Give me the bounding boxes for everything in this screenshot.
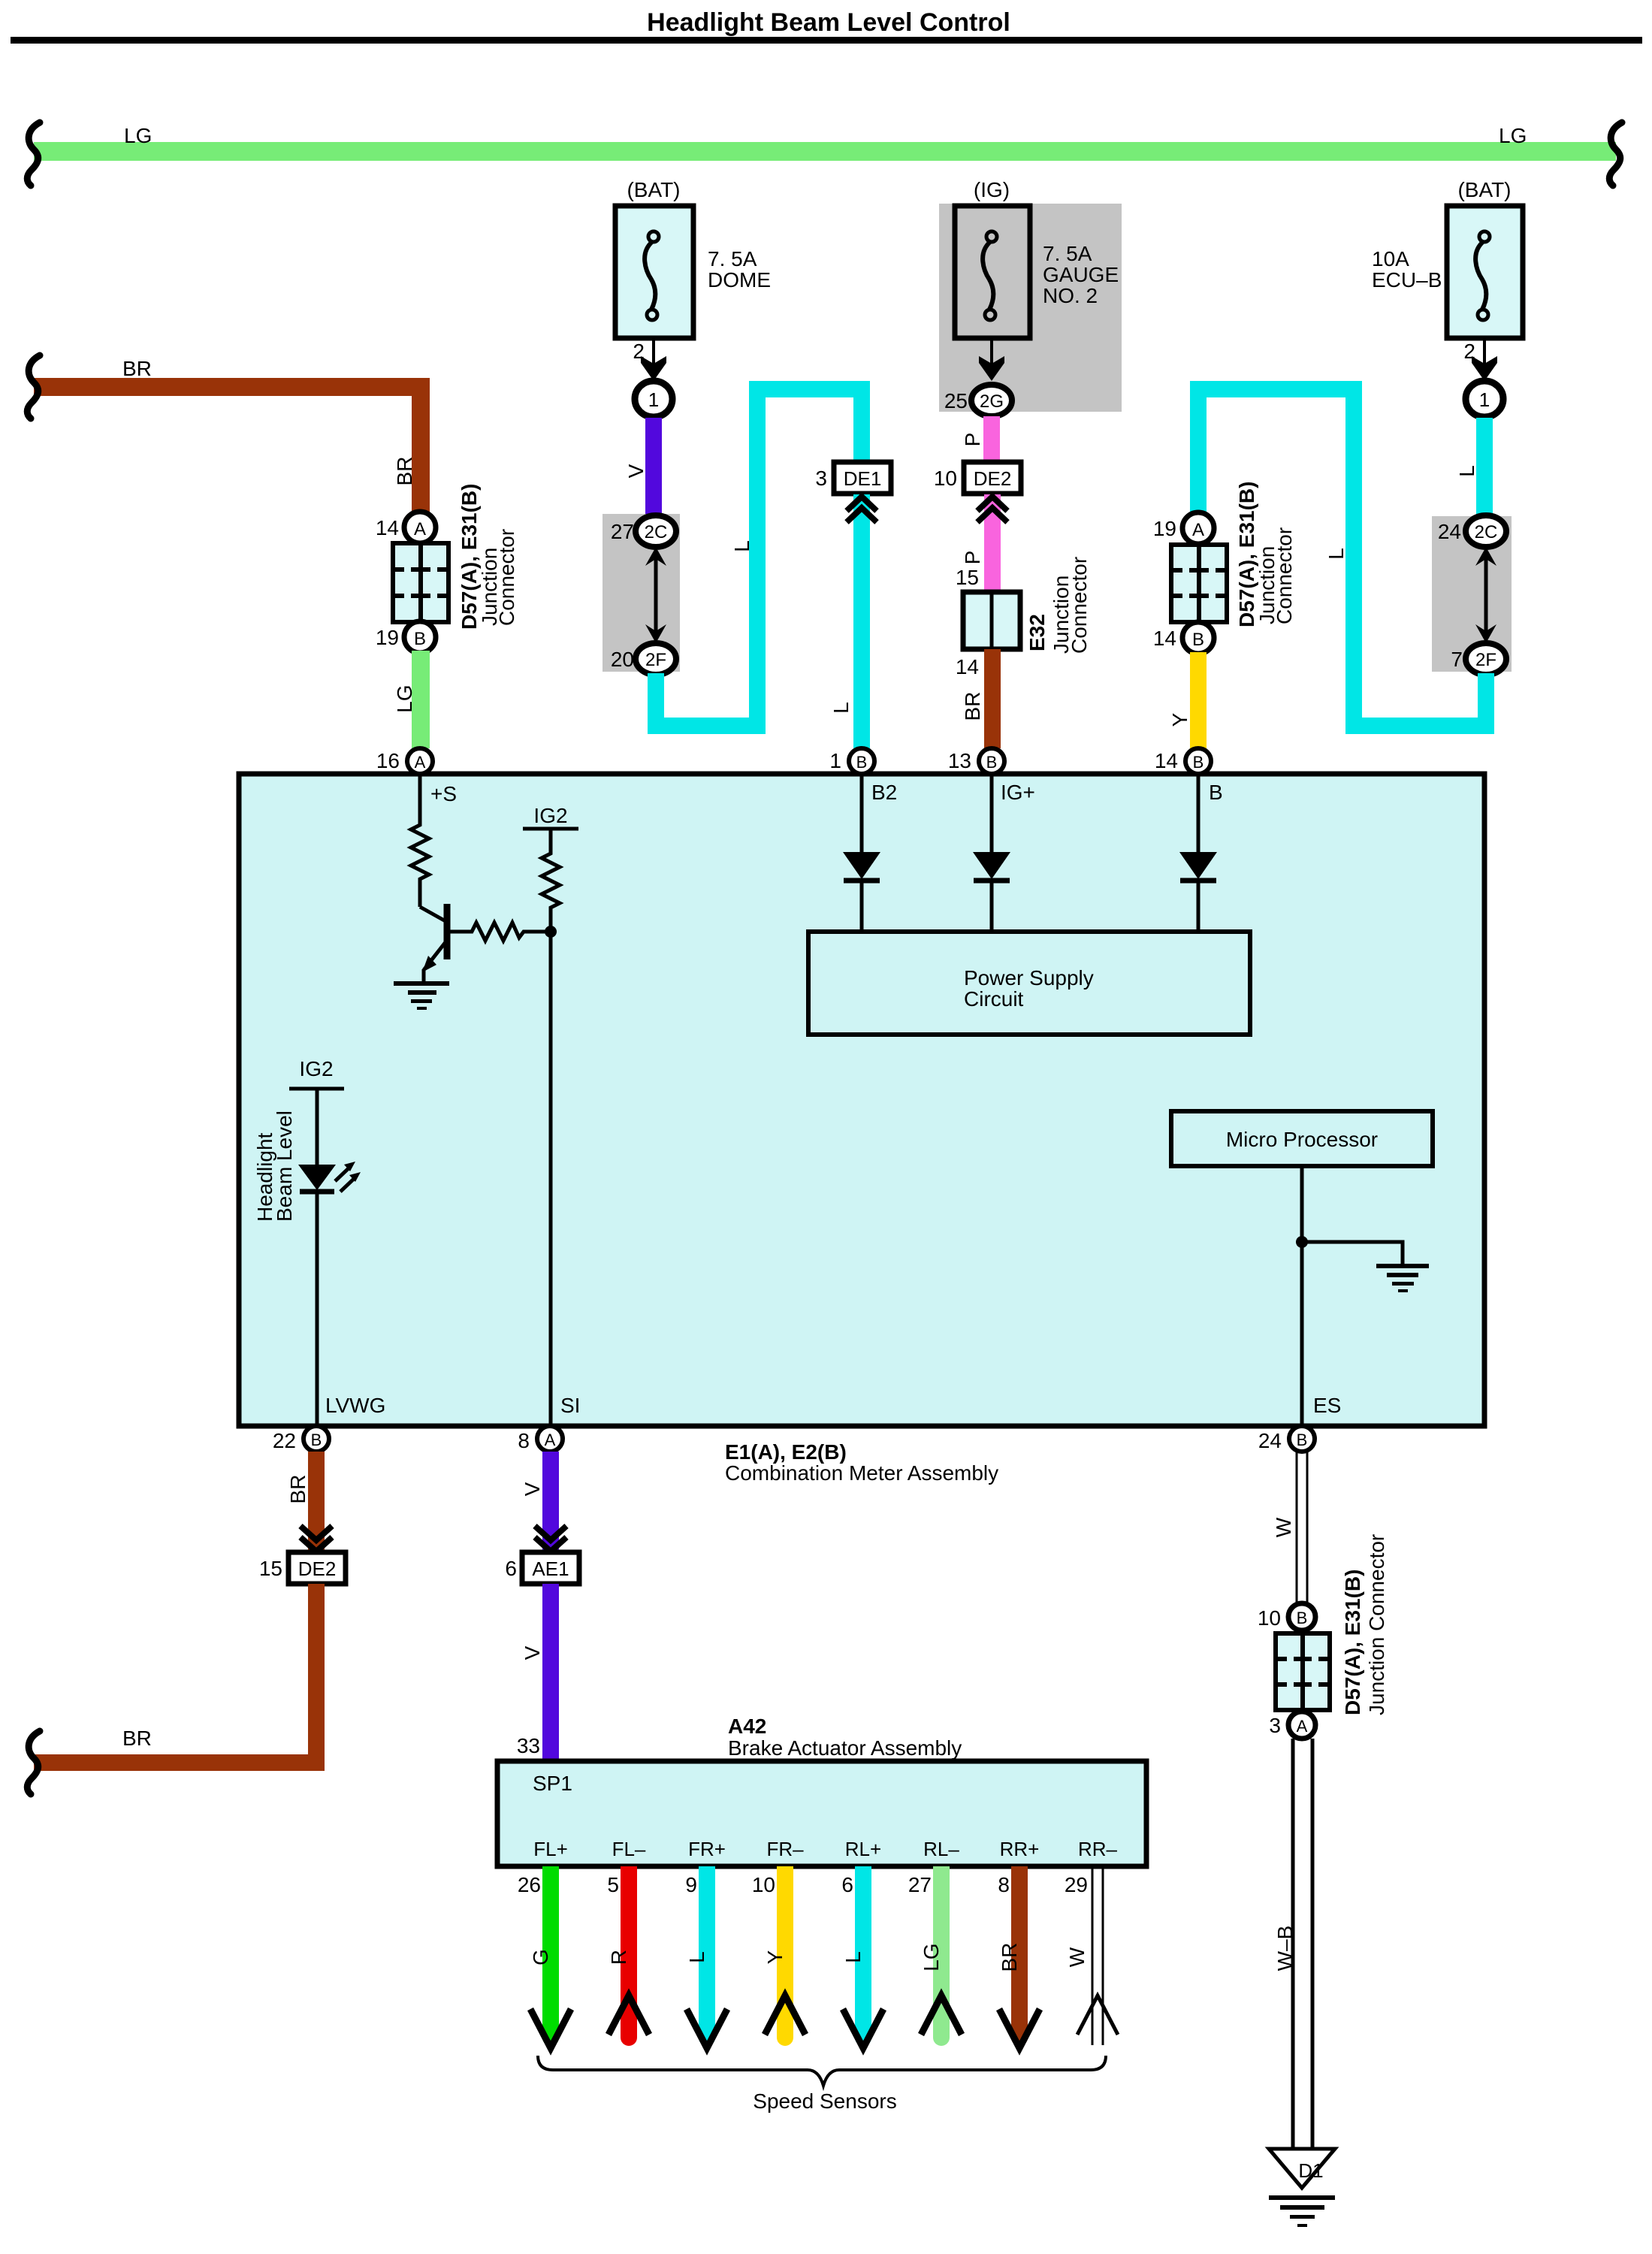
svg-text:24: 24	[1438, 520, 1461, 543]
junction connector D57(A),E31(B) right: grid box	[1171, 545, 1227, 622]
svg-text:LG: LG	[1499, 124, 1527, 147]
arrow up (RL-)	[921, 1996, 962, 2035]
svg-text:3: 3	[815, 467, 827, 490]
gray block behind GAUGE fuse	[939, 204, 1122, 412]
wire L (FR+)	[699, 1866, 715, 2038]
svg-text:Circuit: Circuit	[964, 987, 1024, 1011]
svg-text:13: 13	[948, 749, 971, 772]
svg-text:IG2: IG2	[533, 804, 567, 827]
wire L (fuse to 2C right)	[1476, 418, 1493, 515]
title rule	[11, 37, 1642, 44]
connector ellipse 1 (DOME)	[635, 381, 672, 417]
arrow down (RR+)	[999, 2009, 1040, 2048]
svg-text:B: B	[414, 629, 426, 649]
svg-text:10: 10	[752, 1873, 775, 1896]
wire fuse to 2G	[990, 338, 993, 365]
svg-text:GAUGE: GAUGE	[1043, 263, 1119, 286]
svg-text:SI: SI	[560, 1394, 580, 1417]
svg-text:LG: LG	[124, 124, 152, 147]
svg-text:D1: D1	[1298, 2159, 1323, 2182]
svg-text:B: B	[1297, 1431, 1308, 1449]
transistor Q1 base bar	[444, 904, 451, 959]
wire micro processor to ES	[1300, 1166, 1304, 1426]
svg-text:B: B	[986, 753, 998, 772]
transistor Q1 emitter lead with arrow	[424, 942, 445, 970]
wire pin 2 (ECU-B)	[1483, 338, 1486, 365]
svg-text:Connector: Connector	[1273, 527, 1296, 624]
svg-text:A: A	[545, 1431, 556, 1449]
svg-text:6: 6	[505, 1557, 517, 1580]
svg-text:V: V	[521, 1482, 544, 1496]
node junction (base/IG2)	[545, 926, 557, 938]
diode D (B2)	[860, 774, 864, 854]
wire P (2G to DE2)	[983, 416, 1000, 463]
wire W (RR-) double line	[1092, 1866, 1094, 2045]
ground point D1 triangle	[1269, 2149, 1335, 2188]
svg-text:Brake Actuator Assembly: Brake Actuator Assembly	[728, 1736, 962, 1760]
svg-text:LG: LG	[920, 1943, 943, 1971]
arrowhead down (ECU-B pin 2)	[1472, 356, 1497, 381]
combination meter assembly box	[239, 774, 1484, 1426]
svg-text:BR: BR	[998, 1943, 1021, 1972]
arrow up (RR-)	[1077, 1996, 1118, 2035]
svg-text:IG+: IG+	[1001, 781, 1035, 804]
junction connector D57(A),E31(B) bottom: grid box	[1276, 1633, 1330, 1710]
svg-text:14: 14	[1155, 749, 1178, 772]
svg-text:3: 3	[1269, 1714, 1281, 1737]
wire LED to LVWG pin	[316, 1192, 319, 1426]
svg-text:20: 20	[611, 648, 634, 671]
double-head arrow between 2C and 2F (right)	[1484, 556, 1488, 635]
svg-text:19: 19	[376, 626, 399, 649]
wire L (RL+)	[855, 1866, 871, 2038]
svg-text:33: 33	[517, 1734, 540, 1757]
svg-text:22: 22	[273, 1429, 296, 1452]
ground (micro processor)	[1376, 1264, 1429, 1268]
brace (speed sensors)	[538, 2056, 1106, 2086]
fuse ECU-B element	[1475, 231, 1490, 320]
svg-text:Headlight Beam Level Control: Headlight Beam Level Control	[647, 8, 1010, 37]
wire W (24B down) double line	[1296, 1452, 1298, 1603]
svg-text:AE1: AE1	[532, 1558, 569, 1580]
svg-text:A42: A42	[728, 1715, 766, 1738]
svg-text:B2: B2	[871, 781, 897, 804]
svg-text:Y: Y	[763, 1950, 787, 1964]
svg-text:1: 1	[648, 388, 659, 411]
wire BR (22B down)	[308, 1452, 325, 1552]
power supply circuit box	[808, 932, 1250, 1035]
fuse DOME element	[645, 231, 659, 320]
wire break symbol left (BR bottom)	[27, 1731, 40, 1794]
svg-text:Y: Y	[1168, 712, 1191, 727]
wire V (8A down)	[542, 1452, 559, 1552]
svg-text:27: 27	[611, 520, 634, 543]
wire: LG bus (horizontal, top)	[34, 142, 1616, 161]
svg-text:RR–: RR–	[1078, 1838, 1118, 1860]
wire break symbol left (LG)	[27, 122, 40, 186]
wire node to ground	[1302, 1242, 1403, 1264]
svg-text:29: 29	[1065, 1873, 1088, 1896]
double-head arrow between 2C and 2F (left)	[654, 556, 658, 635]
connector ellipse 2F (right)	[1466, 643, 1506, 675]
diode D (B)	[1197, 774, 1200, 854]
chevrons above DE2 (down)	[301, 1526, 332, 1540]
svg-text:Micro Processor: Micro Processor	[1226, 1128, 1378, 1151]
svg-text:BR: BR	[961, 692, 984, 721]
svg-text:16: 16	[376, 749, 400, 772]
LED light arrows	[335, 1167, 350, 1181]
ground (transistor emitter)	[394, 981, 449, 986]
svg-text:19: 19	[1153, 517, 1176, 540]
wire W-B (3A to D1) double line	[1291, 1739, 1295, 2149]
wire Y (FR-)	[777, 1866, 793, 2038]
svg-text:10A: 10A	[1372, 247, 1409, 270]
svg-text:A: A	[415, 753, 426, 772]
svg-text:SP1: SP1	[533, 1772, 572, 1795]
svg-text:(BAT): (BAT)	[1457, 178, 1511, 201]
svg-text:B: B	[1193, 753, 1204, 772]
svg-text:W: W	[1065, 1947, 1089, 1967]
svg-text:FL–: FL–	[612, 1838, 646, 1860]
chevrons below DE2	[977, 497, 1007, 511]
wire BR (DE2 down, corner, to break)	[34, 1584, 316, 1763]
svg-text:Combination Meter Assembly: Combination Meter Assembly	[725, 1461, 998, 1485]
svg-text:W–B: W–B	[1273, 1926, 1297, 1971]
wire G (FL+)	[542, 1866, 559, 2038]
svg-text:Junction Connector: Junction Connector	[1365, 1534, 1388, 1715]
svg-text:25: 25	[944, 389, 968, 412]
svg-text:10: 10	[934, 467, 957, 490]
svg-text:Speed Sensors: Speed Sensors	[753, 2089, 896, 2113]
svg-text:10: 10	[1258, 1606, 1281, 1630]
svg-text:15: 15	[259, 1557, 282, 1580]
wire break symbol left (BR)	[27, 355, 40, 418]
svg-text:7. 5A: 7. 5A	[708, 247, 757, 270]
svg-text:W: W	[1272, 1517, 1295, 1537]
svg-text:P: P	[961, 433, 984, 447]
svg-text:2C: 2C	[645, 522, 668, 542]
svg-text:LVWG: LVWG	[325, 1394, 385, 1417]
svg-text:14: 14	[1153, 627, 1176, 650]
svg-text:27: 27	[908, 1873, 932, 1896]
arrow down (FR+)	[687, 2009, 727, 2048]
svg-text:FR–: FR–	[766, 1838, 804, 1860]
wire LG (19B to 16A)	[412, 651, 430, 748]
connector ellipse 2C (left)	[636, 515, 676, 547]
svg-text:L: L	[730, 540, 754, 552]
svg-text:BR: BR	[393, 457, 416, 486]
svg-text:B: B	[1192, 630, 1204, 650]
svg-text:DOME: DOME	[708, 268, 771, 292]
svg-text:E1(A), E2(B): E1(A), E2(B)	[725, 1440, 847, 1464]
wire: BR top-left vertical	[412, 378, 430, 513]
svg-text:Power Supply: Power Supply	[964, 966, 1094, 990]
svg-text:BR: BR	[122, 357, 152, 380]
svg-text:L: L	[841, 1951, 865, 1963]
svg-text:A: A	[414, 519, 426, 539]
svg-text:RL+: RL+	[845, 1838, 881, 1860]
svg-text:NO. 2: NO. 2	[1043, 284, 1098, 307]
svg-text:V: V	[521, 1645, 544, 1660]
svg-text:L: L	[829, 702, 853, 714]
arrowhead down (DOME pin 2)	[641, 356, 666, 381]
wire L cyan loop (2F to DE1)	[656, 389, 862, 726]
chevrons above AE1 (down)	[535, 1526, 566, 1540]
svg-text:1: 1	[1479, 388, 1490, 411]
wire V (fuse 1 to 2C)	[645, 418, 662, 515]
gray block behind 2C/2F (left)	[603, 514, 680, 672]
svg-text:(IG): (IG)	[974, 178, 1010, 201]
svg-text:2F: 2F	[1475, 650, 1496, 670]
svg-text:14: 14	[376, 516, 399, 539]
svg-text:IG2: IG2	[299, 1057, 333, 1080]
svg-text:ECU–B: ECU–B	[1372, 268, 1442, 292]
arrow down (FL+)	[530, 2009, 571, 2048]
svg-text:B: B	[856, 753, 868, 772]
svg-text:FL+: FL+	[533, 1838, 568, 1860]
brake actuator assembly box	[497, 1761, 1146, 1866]
arrowhead down (GAUGE)	[979, 356, 1004, 381]
svg-text:2C: 2C	[1475, 522, 1498, 542]
svg-text:FR+: FR+	[688, 1838, 726, 1860]
svg-text:BR: BR	[286, 1475, 310, 1504]
wire BR (RR+)	[1011, 1866, 1028, 2038]
resistor base (horizontal)	[447, 923, 545, 941]
svg-text:B: B	[1209, 781, 1223, 804]
svg-text:V: V	[624, 464, 648, 478]
svg-text:D57(A), E31(B): D57(A), E31(B)	[1341, 1570, 1364, 1715]
svg-text:ES: ES	[1313, 1394, 1341, 1417]
diode D (IG+)	[990, 774, 994, 854]
connector box DE2	[964, 462, 1021, 494]
connector box AE1	[522, 1552, 579, 1584]
svg-text:1: 1	[829, 749, 841, 772]
svg-text:P: P	[961, 551, 984, 565]
svg-text:RR+: RR+	[1000, 1838, 1040, 1860]
svg-text:2G: 2G	[980, 391, 1004, 412]
wire V (AE1 to SP1)	[542, 1584, 559, 1761]
connector ellipse 2G	[971, 385, 1012, 416]
svg-text:RL–: RL–	[923, 1838, 959, 1860]
svg-text:(BAT): (BAT)	[627, 178, 680, 201]
svg-text:DE2: DE2	[298, 1558, 337, 1580]
transistor Q1 collector lead	[420, 907, 445, 921]
svg-text:Connector: Connector	[1068, 557, 1091, 654]
svg-text:DE2: DE2	[974, 467, 1012, 490]
fuse DOME box	[615, 206, 693, 338]
svg-text:24: 24	[1258, 1429, 1282, 1452]
wire P (DE2 to E32)	[984, 494, 1001, 592]
wire L (DE1 to pin 1B)	[853, 494, 870, 748]
svg-text:L: L	[1455, 465, 1478, 477]
wire R (FL-)	[621, 1866, 637, 2038]
wire LG (RL-)	[933, 1866, 950, 2038]
svg-text:7: 7	[1451, 648, 1463, 671]
gray block behind 2C/2F (right)	[1432, 516, 1512, 672]
chevrons below DE1	[847, 497, 877, 511]
arrow down (RL+)	[843, 2009, 883, 2048]
arrow up (FL-)	[609, 1996, 649, 2035]
junction connector D57(A),E31(B) left: grid box	[393, 543, 448, 622]
connector ellipse 1 (ECU-B)	[1466, 381, 1503, 417]
svg-text:5: 5	[607, 1873, 619, 1896]
wire: BR top-left horizontal	[34, 378, 430, 396]
connector ellipse 2C (right)	[1466, 515, 1506, 547]
svg-text:G: G	[529, 1949, 552, 1965]
connector ellipse 2F (left)	[636, 643, 676, 675]
svg-text:14: 14	[956, 655, 979, 678]
LED Headlight Beam Level (diode)	[298, 1165, 336, 1190]
resistor IG2 (vertical) + wire down to SI	[542, 829, 560, 1426]
wire L cyan loop (2F right to 19A)	[1198, 389, 1486, 726]
svg-text:Connector: Connector	[495, 529, 518, 626]
junction connector E32 box	[963, 592, 1020, 649]
fuse ECU-B box	[1447, 206, 1523, 338]
svg-text:7. 5A: 7. 5A	[1043, 242, 1092, 265]
svg-text:DE1: DE1	[844, 467, 882, 490]
svg-text:8: 8	[998, 1873, 1010, 1896]
svg-text:R: R	[607, 1950, 630, 1965]
wire break symbol right (LG)	[1609, 122, 1622, 186]
IG2 rail (LED branch)	[289, 1087, 344, 1091]
IG2 rail (upper)	[523, 827, 578, 831]
ground (D1)	[1269, 2195, 1335, 2200]
svg-text:E32: E32	[1025, 614, 1049, 651]
svg-text:6: 6	[841, 1873, 853, 1896]
svg-text:BR: BR	[122, 1727, 152, 1750]
svg-text:8: 8	[518, 1429, 530, 1452]
svg-text:B: B	[1297, 1609, 1308, 1627]
svg-text:15: 15	[956, 566, 979, 589]
fuse GAUGE NO.2 box	[955, 206, 1030, 338]
svg-text:LG: LG	[393, 684, 416, 712]
svg-text:Beam Level: Beam Level	[273, 1110, 296, 1222]
svg-text:26: 26	[518, 1873, 541, 1896]
arrow up (FR-)	[765, 1996, 805, 2035]
wire BR (E32 to pin 13B)	[984, 649, 1001, 748]
svg-text:B: B	[311, 1431, 322, 1449]
wire pin 2 to connector (DOME)	[652, 338, 655, 365]
svg-text:L: L	[685, 1951, 708, 1963]
svg-text:9: 9	[685, 1873, 697, 1896]
wire Y (14B to pin 14B)	[1190, 652, 1207, 748]
svg-text:A: A	[1297, 1717, 1308, 1736]
resistor +S (vertical)	[411, 774, 429, 907]
svg-text:2F: 2F	[645, 650, 666, 670]
svg-text:L: L	[1324, 548, 1348, 560]
connector box DE1	[834, 462, 891, 494]
micro processor box	[1171, 1111, 1433, 1166]
fuse GAUGE element	[983, 231, 997, 320]
svg-text:A: A	[1192, 520, 1204, 540]
node junction (ES)	[1296, 1236, 1308, 1248]
wire IG2 rail to LED	[316, 1089, 319, 1166]
svg-text:+S: +S	[430, 782, 457, 805]
connector box DE2 (lower)	[288, 1552, 346, 1584]
